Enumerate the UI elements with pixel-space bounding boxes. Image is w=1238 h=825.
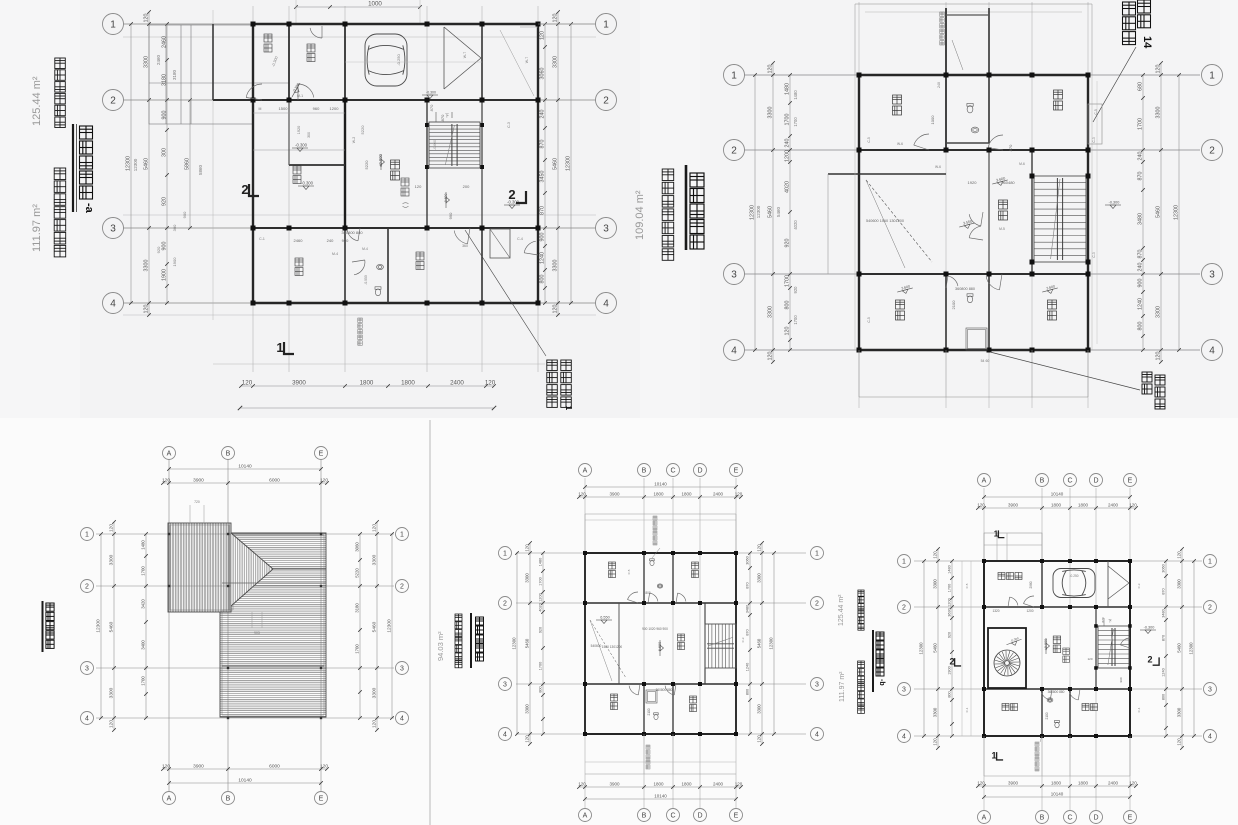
plan1 outer wall right (537, 24, 539, 303)
svg-text:800: 800 (784, 301, 790, 310)
svg-text:6000: 6000 (269, 763, 280, 769)
plan1 room label 内院 fake glyphs (293, 166, 301, 174)
svg-text:3060: 3060 (354, 542, 359, 552)
svg-text:300: 300 (161, 148, 167, 157)
svg-text:870: 870 (745, 629, 749, 635)
plan4 top bathroom toilet (650, 559, 655, 566)
svg-text:900 1020 960 900: 900 1020 960 900 (642, 627, 668, 631)
plan2 side eave light lines (1091, 75, 1093, 350)
svg-text:1200: 1200 (1026, 609, 1033, 613)
plan5 courtyard thick walls with tree (988, 628, 1026, 688)
plan5 garage right wall / funnel side (1107, 561, 1109, 607)
plan4 left sub chain (542, 553, 544, 734)
plan5 level mark living (1046, 638, 1050, 654)
plan2 bottom bathroom tub (966, 328, 987, 350)
svg-text:5460: 5460 (108, 621, 114, 632)
svg-text:2: 2 (1209, 146, 1215, 157)
svg-text:12300: 12300 (768, 637, 773, 650)
svg-text:3300: 3300 (932, 707, 937, 717)
svg-text:B: B (642, 813, 647, 820)
plan4 bottom bathroom tub (646, 690, 657, 703)
svg-text:1: 1 (1209, 71, 1215, 82)
svg-text:12300: 12300 (511, 637, 516, 650)
plan1 outer wall top (253, 23, 538, 25)
svg-text:2: 2 (603, 96, 609, 107)
plan5 level mark right (1140, 630, 1156, 634)
plan2 left main chain 3300/5460/3300 (772, 63, 774, 362)
svg-text:1700: 1700 (784, 114, 790, 126)
svg-text:1: 1 (503, 551, 507, 558)
svg-text:4: 4 (503, 732, 507, 739)
svg-text:870: 870 (1161, 588, 1165, 594)
plan1 room label 堂屋(客厅) vertical fake glyphs (391, 160, 400, 169)
plan1 entrance porch nested steps (149, 25, 253, 124)
svg-text:2: 2 (731, 146, 737, 157)
plan2 top-right callout leader line (1093, 47, 1136, 122)
plan2 wall axis3 (859, 273, 1088, 275)
svg-text:±0.000: ±0.000 (378, 153, 383, 166)
plan1 garage mid light line (345, 61, 482, 63)
svg-text:1800: 1800 (653, 781, 664, 786)
svg-text:1900: 1900 (947, 666, 951, 674)
plan4 left outer chain 12300 (516, 553, 518, 734)
svg-text:D: D (1093, 815, 1098, 822)
svg-text:240: 240 (1137, 263, 1143, 272)
svg-text:3180: 3180 (354, 603, 359, 613)
svg-text:240: 240 (327, 238, 334, 243)
svg-text:2980: 2980 (1029, 581, 1033, 588)
svg-text:920: 920 (156, 246, 161, 253)
svg-text:1800: 1800 (1051, 502, 1062, 507)
svg-text:1: 1 (815, 551, 819, 558)
svg-text:1200: 1200 (784, 150, 790, 162)
svg-text:120: 120 (735, 491, 743, 496)
svg-text:2460: 2460 (294, 238, 304, 243)
svg-text:12300: 12300 (133, 158, 138, 171)
plan2 bottom callout text 详见/二号 bold fake glyphs (1142, 372, 1152, 382)
svg-text:3420: 3420 (140, 599, 145, 609)
svg-text:12300: 12300 (95, 619, 101, 633)
plan5 column squares (982, 559, 986, 563)
plan2 title 二层平面图 (fake glyphs, vertical, underlined) (690, 173, 704, 187)
svg-text:800: 800 (1137, 322, 1143, 331)
svg-text:870: 870 (539, 140, 545, 149)
svg-text:E: E (1128, 478, 1133, 485)
svg-text:M-1: M-1 (297, 94, 303, 98)
svg-text:3300: 3300 (552, 260, 558, 272)
svg-text:2100: 2100 (1045, 712, 1049, 719)
plan2 top-right callout text 见建14 bold fake glyphs (1123, 2, 1136, 15)
svg-text:C-4: C-4 (1137, 707, 1141, 712)
svg-text:1240: 1240 (1161, 668, 1165, 676)
svg-text:125.44 m²: 125.44 m² (31, 76, 43, 126)
plan1 top small dimension chain over garage (296, 6, 420, 8)
plan4 top balcony outline (585, 513, 736, 515)
svg-text:-0.050: -0.050 (364, 275, 368, 285)
svg-text:-0.300: -0.300 (426, 91, 436, 95)
svg-text:1200: 1200 (538, 593, 542, 601)
svg-text:5460: 5460 (552, 158, 558, 170)
plan2 room label 次卧 top-right fake glyphs (1054, 90, 1063, 99)
svg-text:920: 920 (161, 197, 167, 206)
plan2 diagonal void lines middle-left room (866, 180, 932, 262)
plan4 room labels fake glyphs (609, 562, 616, 569)
svg-text:1240: 1240 (539, 252, 545, 264)
svg-text:3300: 3300 (371, 554, 377, 565)
svg-text:4020: 4020 (538, 603, 542, 611)
plan5 stair left wall (1095, 607, 1097, 689)
plan1 left dimension chain outer 12300 (130, 24, 132, 303)
plan4 level marks (660, 640, 664, 656)
svg-text:540600: 540600 (591, 644, 602, 648)
svg-text:800: 800 (539, 275, 545, 284)
plan5 right main chain (1181, 549, 1183, 748)
plan2 right main chain (1160, 63, 1162, 362)
svg-text:1560 1301200: 1560 1301200 (602, 645, 623, 649)
svg-text:1320: 1320 (992, 609, 999, 613)
svg-text:4: 4 (815, 732, 819, 739)
svg-text:120: 120 (371, 524, 377, 532)
plan1 eave light line below building (213, 363, 545, 365)
svg-text:240: 240 (539, 110, 545, 119)
svg-text:870: 870 (1008, 144, 1013, 151)
svg-text:920: 920 (947, 632, 951, 638)
svg-text:1240: 1240 (745, 663, 749, 671)
svg-text:2: 2 (1147, 655, 1152, 665)
plan5 bath toilet (1055, 721, 1060, 728)
svg-text:3900: 3900 (292, 379, 306, 386)
svg-text:C-5: C-5 (627, 569, 631, 574)
plan2 top-right bay window outline (1088, 104, 1102, 144)
plan1 bath door arc (347, 230, 358, 241)
svg-text:2100: 2100 (951, 300, 956, 310)
plan1 bath fixtures toilet (375, 287, 381, 296)
svg-text:A: A (167, 796, 172, 803)
svg-text:1: 1 (400, 532, 404, 539)
svg-text:3900: 3900 (609, 781, 620, 786)
plan5 vertical grid lines A-E (983, 488, 985, 810)
svg-text:C-5: C-5 (1094, 109, 1098, 114)
svg-text:2: 2 (815, 601, 819, 608)
plan1 right dimension chains (544, 24, 546, 303)
svg-text:800: 800 (645, 591, 651, 595)
svg-text:120: 120 (756, 544, 761, 552)
svg-text:10140: 10140 (1051, 791, 1064, 796)
svg-text:4020: 4020 (784, 181, 790, 193)
svg-text:1200: 1200 (947, 598, 951, 606)
plan1 garage door funnel symbol (444, 27, 481, 58)
svg-text:1500: 1500 (279, 106, 289, 111)
plan3 hip ridge diagonal lines (231, 533, 273, 569)
svg-text:870: 870 (1137, 250, 1143, 259)
svg-text:W-7: W-7 (525, 57, 529, 63)
plan1 level mark right terrace (504, 205, 520, 209)
svg-text:2460: 2460 (156, 54, 161, 65)
svg-text:109.04 m²: 109.04 m² (634, 190, 646, 240)
svg-text:120: 120 (162, 763, 170, 769)
svg-text:5460: 5460 (767, 206, 773, 218)
plan1 car in garage (365, 34, 407, 86)
plan1 column squares (251, 22, 256, 27)
plan5 stair arrow (1103, 618, 1105, 626)
svg-text:12300: 12300 (1188, 642, 1193, 655)
svg-text:3300: 3300 (756, 704, 761, 714)
plan3 left dimension chain outer 12300 (100, 534, 102, 718)
plan1 terrace diagonal lines right strip (500, 30, 534, 96)
plan3 top dimension chain 10140 (169, 468, 321, 470)
svg-text:C-5: C-5 (965, 583, 969, 588)
plan3 bottom dimension chain 3900/6000 (163, 768, 327, 770)
svg-text:3180: 3180 (172, 69, 177, 80)
svg-text:3300: 3300 (552, 56, 558, 68)
svg-text:5460: 5460 (1176, 643, 1181, 653)
svg-text:111.97 m²: 111.97 m² (839, 671, 846, 702)
plan5 garage left wall (1041, 561, 1043, 607)
svg-text:3300: 3300 (767, 107, 773, 119)
svg-text:-0.600: -0.600 (433, 140, 437, 150)
svg-text:B: B (1040, 478, 1045, 485)
plan3 left main chain 3300/5460/3300 (113, 522, 115, 730)
svg-text:1000: 1000 (368, 0, 382, 7)
svg-text:120: 120 (485, 379, 496, 386)
svg-text:1480: 1480 (784, 83, 790, 95)
svg-text:1800: 1800 (401, 379, 415, 386)
plan5 axis circles top A-E (978, 474, 991, 487)
plan5 stairs (1098, 626, 1129, 668)
svg-text:3: 3 (902, 687, 906, 694)
svg-text:3180: 3180 (161, 74, 167, 86)
plan2 column squares (857, 73, 862, 78)
svg-text:±0.000: ±0.000 (1044, 639, 1048, 651)
svg-text:B: B (226, 796, 231, 803)
svg-text:-0.600: -0.600 (444, 193, 448, 203)
svg-text:5220: 5220 (364, 160, 369, 170)
plan1 bottom outer chain line (240, 407, 494, 409)
svg-text:1920: 1920 (297, 126, 301, 134)
plan1 wall stair left x=427 (426, 100, 428, 228)
svg-text:A: A (982, 478, 987, 485)
svg-text:C: C (670, 468, 675, 475)
plan3 bottom dimension chain 10140 (169, 782, 321, 784)
plan1 level marks extra (292, 83, 303, 99)
plan4 wall row3 (585, 683, 736, 685)
plan1 storage door arc (310, 28, 322, 38)
plan1 terrace right strip lines (538, 23, 594, 25)
svg-text:M-5: M-5 (999, 227, 1005, 231)
plan1 room label 餐厅 fake glyphs (295, 258, 303, 266)
svg-text:4: 4 (603, 299, 609, 310)
plan1 wall axis2 horizontal (213, 99, 538, 101)
svg-text:C-1: C-1 (259, 237, 265, 241)
plan4 right main chain (761, 543, 763, 744)
svg-text:120: 120 (767, 65, 773, 74)
svg-text:960480: 960480 (1001, 180, 1015, 185)
plan3 right main chain (376, 522, 378, 730)
svg-text:C-1: C-1 (965, 707, 969, 712)
svg-text:3300: 3300 (932, 579, 937, 589)
svg-text:10140: 10140 (654, 481, 667, 486)
plan2 bottom bath door arc (948, 276, 958, 286)
svg-text:1700: 1700 (784, 275, 790, 287)
svg-text:E: E (319, 451, 324, 458)
plan5 right outer chain 12300 (1193, 561, 1195, 736)
svg-text:900: 900 (161, 242, 167, 251)
svg-text:W-2: W-2 (352, 137, 356, 143)
svg-text:C-3: C-3 (741, 637, 745, 642)
plan2 outer wall right (1087, 75, 1089, 350)
plan1 terrace door arc lower right (524, 241, 536, 253)
svg-text:12300: 12300 (565, 156, 571, 171)
svg-text:C-3: C-3 (507, 122, 511, 128)
plan1 stairs (429, 122, 480, 168)
svg-text:2: 2 (400, 584, 404, 591)
svg-text:1480: 1480 (947, 565, 951, 573)
svg-text:120: 120 (977, 780, 985, 785)
plan4 top bath walls (643, 553, 645, 603)
plan1 wall garage left x=345 (344, 24, 346, 100)
plan4 vertical grid lines A-E (584, 478, 586, 808)
plan1 courtyard inner wall y=165 (289, 164, 345, 166)
plan1 porch side wall (212, 24, 214, 100)
svg-text:720: 720 (194, 500, 200, 504)
plan1 wall bath left x=345 lower (344, 228, 346, 303)
plan5 margin label 宅基地面积 (fake glyphs, vertical) (858, 590, 864, 596)
svg-text:870: 870 (440, 114, 445, 121)
svg-text:D: D (1093, 478, 1098, 485)
svg-text:1920: 1920 (968, 180, 978, 185)
plan1 room label 门厅 vertical fake glyphs (264, 34, 272, 42)
plan4 wall row2 (585, 602, 736, 604)
svg-text:120: 120 (552, 14, 558, 23)
svg-text:360800 880: 360800 880 (1048, 690, 1065, 694)
plan5 bottom chain 10140 (984, 796, 1130, 798)
svg-text:C-3: C-3 (1092, 252, 1096, 257)
plan5 left eave lines (961, 561, 963, 736)
plan2 bottom-right room door arc (986, 277, 999, 290)
plan4 bottom bathroom toilet (654, 713, 659, 720)
svg-text:2: 2 (902, 605, 906, 612)
plan5 room label 堂屋(客厅) vertical fake glyphs (1053, 636, 1061, 644)
plan3 secondary ridge lines (222, 582, 326, 584)
svg-text:800: 800 (538, 686, 542, 692)
plan5 outer walls (984, 560, 1130, 562)
svg-text:960: 960 (313, 106, 320, 111)
svg-text:1200: 1200 (330, 106, 340, 111)
plan2 level mark 3.600 过厅 (992, 180, 1008, 188)
plan5 room label 厨房 fake glyphs (1082, 704, 1089, 711)
svg-text:1240: 1240 (1137, 298, 1143, 310)
svg-text:960: 960 (342, 238, 349, 243)
plan5 tree/fan circle (994, 650, 1020, 676)
plan1 wall axis3 horizontal (253, 227, 538, 229)
plan2 left sub dims chain (789, 75, 791, 350)
plan3 axis circles right 1-4 (396, 528, 409, 541)
svg-text:3900: 3900 (193, 477, 204, 483)
svg-text:120: 120 (784, 327, 790, 336)
plan3 grid intersection tick marks inside roof (227, 533, 229, 535)
plan1 note text 此墙为后砌墙体 small vertical (358, 318, 363, 323)
svg-text:1: 1 (902, 559, 906, 566)
svg-text:120: 120 (143, 14, 149, 23)
svg-text:2: 2 (949, 657, 954, 667)
plan2 level mark bottom rooms (897, 288, 913, 296)
plan3 left small dim marks above roof (189, 505, 191, 523)
plan1 axis circles left 1-4 (103, 14, 124, 35)
svg-text:3300: 3300 (371, 687, 377, 698)
svg-text:M-6: M-6 (1019, 162, 1025, 166)
svg-text:1800: 1800 (681, 781, 692, 786)
svg-text:870: 870 (429, 104, 434, 111)
svg-text:360: 360 (462, 244, 468, 248)
svg-text:M-4: M-4 (362, 247, 368, 251)
svg-text:94.03 m²: 94.03 m² (436, 631, 445, 661)
svg-text:W-6: W-6 (935, 165, 941, 169)
svg-text:1700: 1700 (140, 676, 145, 686)
svg-text:800: 800 (1161, 694, 1165, 700)
svg-text:2400: 2400 (713, 781, 724, 786)
plan3 title 屋顶平面图 (fake glyphs, vertical, underlined) (46, 603, 54, 611)
svg-text:3: 3 (815, 682, 819, 689)
svg-text:990: 990 (448, 212, 453, 219)
svg-text:下: 下 (445, 113, 449, 118)
svg-text:C-5: C-5 (867, 317, 871, 322)
svg-text:3300: 3300 (108, 554, 114, 565)
svg-text:A: A (167, 451, 172, 458)
svg-text:120: 120 (1155, 352, 1161, 361)
svg-text:120: 120 (524, 544, 529, 552)
svg-text:1700: 1700 (538, 662, 542, 670)
plan2 stair side columns (1030, 174, 1035, 179)
plan4 outer walls (585, 552, 736, 554)
svg-text:3300: 3300 (1176, 707, 1181, 717)
plan2 left dimension chain outer 12300 (754, 75, 756, 350)
svg-text:C-4: C-4 (517, 237, 523, 241)
svg-text:3900: 3900 (1008, 780, 1019, 785)
svg-text:5460: 5460 (1155, 206, 1161, 218)
plan4 left main chain (529, 543, 531, 744)
svg-text:3400: 3400 (140, 640, 145, 650)
plan5 bottom eave lines (983, 736, 985, 776)
svg-text:E: E (734, 813, 739, 820)
plan1 wall courtyard right x=345 (344, 100, 346, 228)
plan5 garage door funnel symbol (1108, 566, 1129, 583)
svg-text:C-3: C-3 (1137, 583, 1141, 588)
svg-text:1: 1 (1208, 559, 1212, 566)
plan5 top dimension chain 10140 (984, 496, 1130, 498)
plan5 wall row2 (984, 606, 1130, 608)
plan2 outer wall left (858, 75, 860, 350)
plan2 axis grid horizontal lines (744, 74, 1200, 76)
svg-text:1700: 1700 (538, 577, 542, 585)
svg-text:C-3: C-3 (1092, 137, 1096, 142)
svg-text:2100: 2100 (647, 708, 651, 715)
plan1 axis circles right 1-4 (596, 14, 617, 35)
svg-text:1700: 1700 (793, 315, 798, 325)
svg-text:1700: 1700 (947, 584, 951, 592)
svg-text:1: 1 (731, 71, 737, 82)
svg-text:240: 240 (937, 82, 941, 88)
plan5 room label 娱乐室 fake glyphs (998, 573, 1005, 580)
svg-text:1900: 1900 (172, 257, 177, 267)
svg-text:54 60: 54 60 (981, 359, 990, 363)
plan3 left sub chain (145, 534, 147, 718)
svg-text:3: 3 (85, 666, 89, 673)
plan1 left extra small dim 5860 (189, 100, 191, 228)
plan2 small note text near top bathroom (940, 12, 945, 17)
plan2 level mark 3.550 (959, 223, 975, 231)
plan4 bottom extension lines (643, 734, 645, 774)
svg-text:1: 1 (603, 20, 609, 31)
